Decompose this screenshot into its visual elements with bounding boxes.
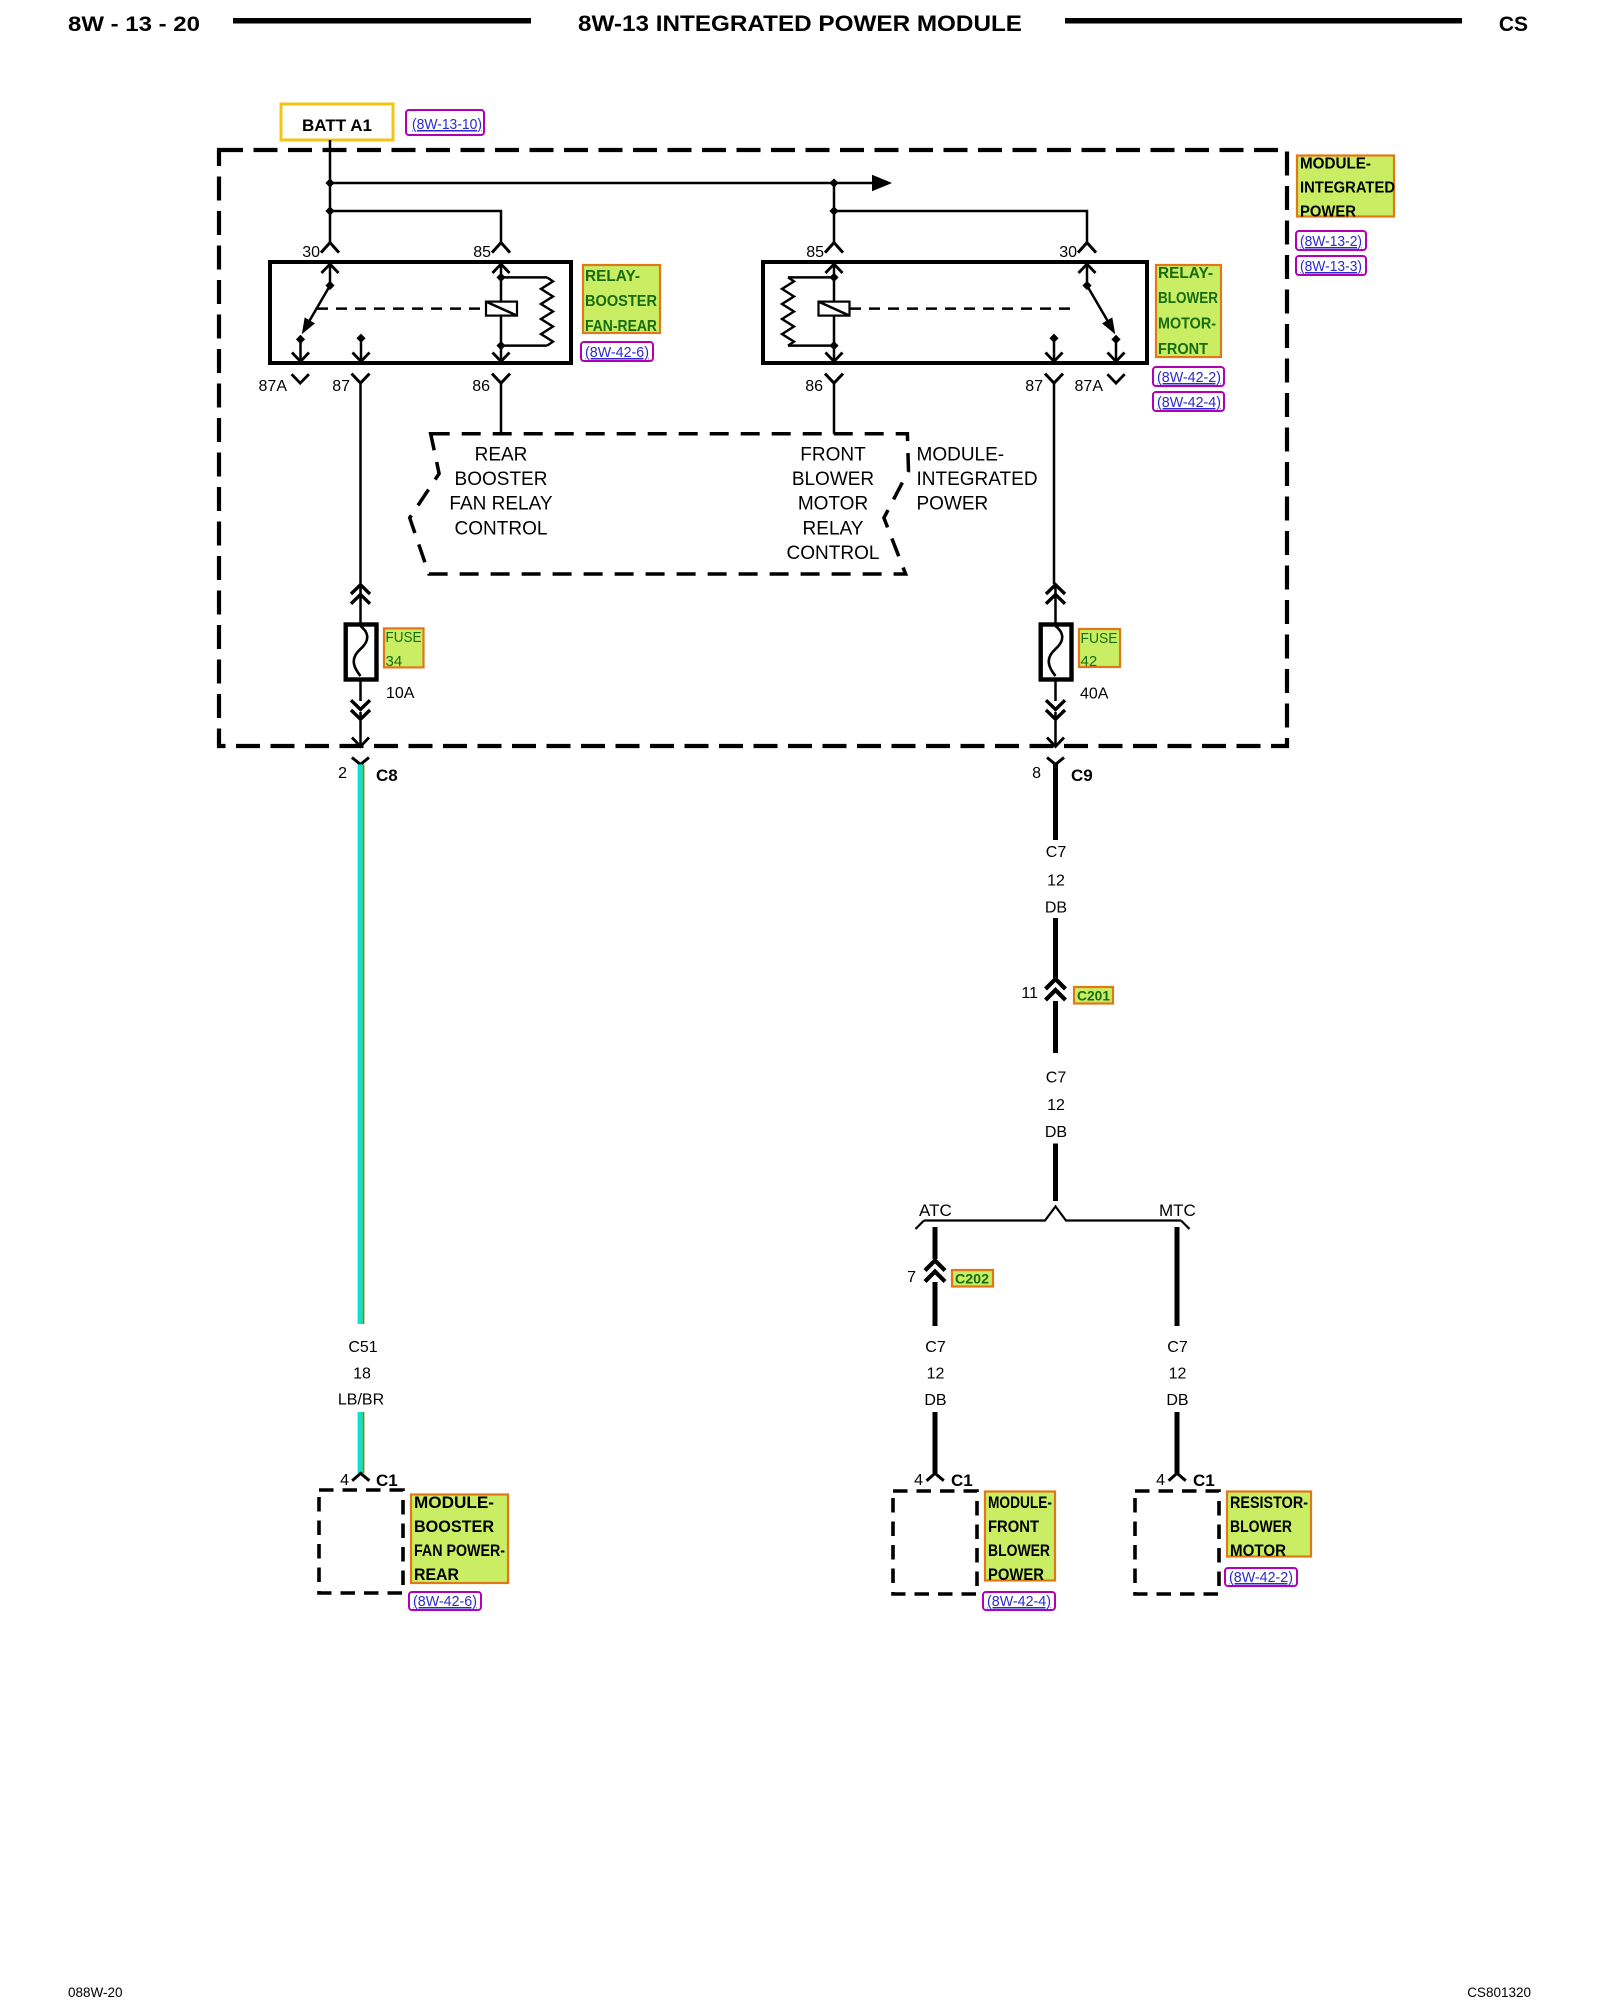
svg-text:INTEGRATED: INTEGRATED (917, 469, 1038, 490)
svg-text:C8: C8 (376, 766, 398, 785)
svg-text:CONTROL: CONTROL (787, 543, 880, 564)
svg-text:12: 12 (927, 1366, 945, 1383)
svg-text:INTEGRATED: INTEGRATED (1300, 180, 1395, 197)
svg-text:MTC: MTC (1159, 1201, 1196, 1220)
svg-text:FRONT: FRONT (800, 445, 866, 466)
svg-text:(8W-42-2): (8W-42-2) (1157, 369, 1221, 386)
svg-text:10A: 10A (386, 685, 415, 702)
svg-text:CS: CS (1499, 13, 1528, 36)
svg-text:34: 34 (386, 653, 403, 670)
svg-text:CONTROL: CONTROL (455, 518, 548, 539)
svg-text:MODULE-: MODULE- (917, 445, 1005, 466)
svg-text:MODULE-: MODULE- (988, 1493, 1052, 1512)
svg-text:86: 86 (472, 378, 490, 395)
svg-text:FAN RELAY: FAN RELAY (449, 494, 552, 515)
svg-text:87A: 87A (259, 378, 288, 395)
svg-text:BOOSTER: BOOSTER (585, 293, 657, 310)
svg-text:RELAY-: RELAY- (1158, 265, 1213, 282)
svg-text:FRONT: FRONT (988, 1517, 1040, 1536)
svg-text:DB: DB (1166, 1392, 1188, 1409)
svg-text:CS801320: CS801320 (1467, 1985, 1531, 2000)
svg-text:ATC: ATC (919, 1201, 952, 1220)
svg-text:30: 30 (302, 244, 320, 261)
svg-text:(8W-13-10): (8W-13-10) (412, 116, 482, 133)
svg-text:4: 4 (914, 1472, 923, 1489)
svg-text:12: 12 (1047, 873, 1065, 890)
svg-text:4: 4 (340, 1472, 349, 1489)
svg-text:MOTOR: MOTOR (798, 494, 868, 515)
svg-text:MODULE-: MODULE- (414, 1493, 494, 1512)
svg-text:C202: C202 (955, 1271, 989, 1287)
svg-text:7: 7 (907, 1269, 916, 1286)
svg-text:87A: 87A (1075, 378, 1104, 395)
svg-text:BOOSTER: BOOSTER (455, 469, 548, 490)
svg-text:POWER: POWER (988, 1565, 1044, 1584)
svg-text:C1: C1 (1193, 1471, 1215, 1490)
svg-text:DB: DB (924, 1392, 946, 1409)
svg-text:12: 12 (1047, 1097, 1065, 1114)
svg-text:MOTOR: MOTOR (1230, 1541, 1286, 1560)
svg-text:BLOWER: BLOWER (988, 1541, 1050, 1560)
svg-text:C1: C1 (376, 1471, 398, 1490)
svg-text:MOTOR-: MOTOR- (1158, 316, 1216, 333)
svg-text:RELAY-: RELAY- (585, 268, 640, 285)
svg-text:(8W-42-6): (8W-42-6) (413, 1593, 477, 1610)
svg-text:POWER: POWER (917, 494, 989, 515)
svg-text:MODULE-: MODULE- (1300, 156, 1371, 173)
svg-text:FAN POWER-: FAN POWER- (414, 1541, 505, 1560)
svg-text:DB: DB (1045, 1124, 1067, 1141)
svg-text:C7: C7 (1046, 844, 1067, 861)
svg-text:8W - 13 - 20: 8W - 13 - 20 (68, 13, 200, 36)
svg-text:DB: DB (1045, 900, 1067, 917)
svg-text:FAN-REAR: FAN-REAR (585, 318, 657, 335)
svg-text:(8W-42-4): (8W-42-4) (1157, 394, 1221, 411)
svg-text:RELAY: RELAY (803, 518, 864, 539)
svg-text:(8W-13-2): (8W-13-2) (1300, 233, 1362, 250)
svg-text:87: 87 (332, 378, 350, 395)
svg-text:C7: C7 (925, 1339, 946, 1356)
svg-text:2: 2 (338, 765, 347, 782)
svg-text:BATT A1: BATT A1 (302, 117, 372, 135)
svg-text:(8W-42-4): (8W-42-4) (987, 1593, 1051, 1610)
svg-text:RESISTOR-: RESISTOR- (1230, 1493, 1308, 1512)
svg-text:C7: C7 (1046, 1070, 1067, 1087)
svg-text:POWER: POWER (1300, 204, 1356, 221)
svg-text:C51: C51 (348, 1339, 377, 1356)
svg-text:LB/BR: LB/BR (338, 1392, 384, 1409)
svg-text:85: 85 (806, 244, 824, 261)
svg-text:8: 8 (1032, 765, 1041, 782)
svg-text:4: 4 (1156, 1472, 1165, 1489)
svg-text:18: 18 (353, 1366, 371, 1383)
svg-text:(8W-42-6): (8W-42-6) (585, 344, 649, 361)
svg-text:42: 42 (1081, 653, 1098, 670)
svg-text:12: 12 (1169, 1366, 1187, 1383)
svg-text:(8W-13-3): (8W-13-3) (1300, 258, 1362, 275)
svg-text:8W-13 INTEGRATED POWER MODULE: 8W-13 INTEGRATED POWER MODULE (578, 11, 1022, 36)
svg-text:FUSE: FUSE (386, 629, 422, 646)
svg-text:85: 85 (473, 244, 491, 261)
svg-text:C7: C7 (1167, 1339, 1188, 1356)
svg-text:BLOWER: BLOWER (1158, 290, 1218, 307)
svg-text:86: 86 (805, 378, 823, 395)
svg-text:40A: 40A (1080, 686, 1109, 703)
svg-text:FRONT: FRONT (1158, 341, 1208, 358)
svg-text:(8W-42-2): (8W-42-2) (1229, 1569, 1293, 1586)
svg-text:87: 87 (1025, 378, 1043, 395)
svg-text:BOOSTER: BOOSTER (414, 1517, 494, 1536)
svg-text:11: 11 (1021, 985, 1038, 1002)
svg-text:REAR: REAR (414, 1565, 459, 1584)
svg-text:088W-20: 088W-20 (68, 1985, 123, 2000)
svg-text:C201: C201 (1077, 988, 1110, 1004)
svg-text:C1: C1 (951, 1471, 973, 1490)
svg-text:REAR: REAR (475, 445, 528, 466)
svg-text:C9: C9 (1071, 766, 1093, 785)
svg-text:BLOWER: BLOWER (792, 469, 874, 490)
svg-text:30: 30 (1059, 244, 1077, 261)
svg-text:BLOWER: BLOWER (1230, 1517, 1292, 1536)
svg-text:FUSE: FUSE (1081, 630, 1118, 647)
